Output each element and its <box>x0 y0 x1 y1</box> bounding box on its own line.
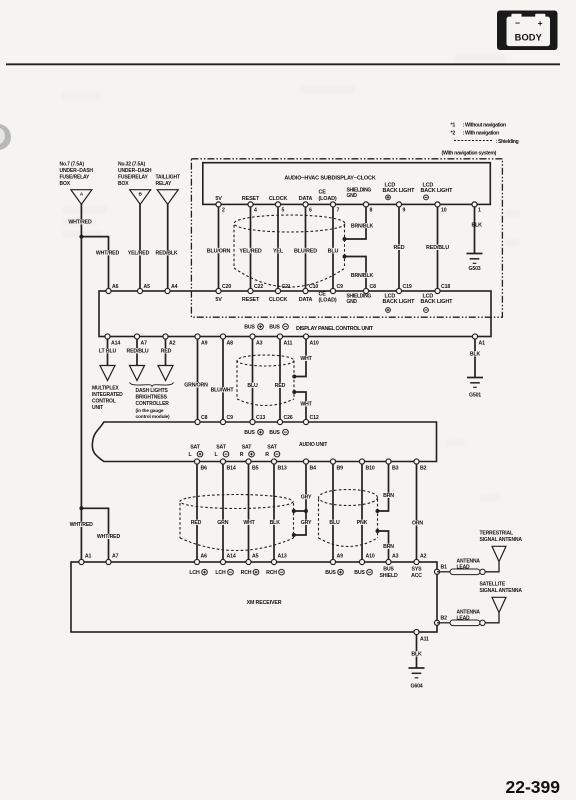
display panel control unit box <box>99 291 491 337</box>
ground G604 <box>409 667 425 669</box>
svg-text:(With navigation system): (With navigation system) <box>442 151 497 157</box>
svg-text:A14: A14 <box>111 341 120 347</box>
svg-text:CONTROLLER: CONTROLLER <box>136 401 170 407</box>
svg-text:LT BLU: LT BLU <box>99 349 117 355</box>
svg-text:BRN/BLK: BRN/BLK <box>351 273 374 279</box>
svg-text:B2: B2 <box>441 616 448 622</box>
svg-text:CONTROL: CONTROL <box>92 399 116 405</box>
svg-text:A9: A9 <box>337 554 344 560</box>
wire BLU/ORN pin 2 to display panel <box>218 207 220 288</box>
svg-text:▒▒▒▒▒▒▒▒: ▒▒▒▒▒▒▒▒ <box>62 92 102 100</box>
svg-text:▒▒▒: ▒▒▒ <box>505 209 520 217</box>
junction dot on shield S1 lower <box>343 255 347 259</box>
svg-text:LCH: LCH <box>189 570 200 576</box>
svg-text:A6: A6 <box>112 284 119 290</box>
svg-text:BLU/ORN: BLU/ORN <box>207 248 231 254</box>
svg-text:C26: C26 <box>284 415 293 421</box>
svg-text:TERRESTRIAL: TERRESTRIAL <box>480 531 513 537</box>
pin B2 of audio unit (bottom) <box>414 459 419 464</box>
junction dot BRN tap upper <box>376 509 380 513</box>
svg-text:A11: A11 <box>420 637 429 643</box>
svg-text:C9: C9 <box>337 284 344 290</box>
svg-text:BLU: BLU <box>329 520 340 526</box>
svg-text:CLOCK: CLOCK <box>269 196 288 202</box>
pin C9 of audio unit (top) <box>220 419 225 424</box>
svg-text:▒▒▒▒▒▒▒▒▒: ▒▒▒▒▒▒▒▒▒ <box>62 206 107 214</box>
ground G501 <box>467 377 483 379</box>
pin A3 of xm receiver (top) <box>386 559 391 564</box>
svg-text:AUDIO−HVAC SUBDISPLAY−CLOCK: AUDIO−HVAC SUBDISPLAY−CLOCK <box>284 176 375 182</box>
legend <box>451 123 519 146</box>
pin A11 of xm receiver (bottom) <box>414 629 419 634</box>
ground G503 <box>467 253 483 255</box>
audio unit box <box>92 422 436 462</box>
svg-text:BUS: BUS <box>244 430 255 436</box>
pin C21 of display panel (top) <box>275 288 280 293</box>
svg-text:UNIT: UNIT <box>92 405 103 411</box>
wire WHT B5 to A5 <box>248 464 250 559</box>
pin B4 of audio unit (bottom) <box>303 459 308 464</box>
svg-text:FUSE/RELAY: FUSE/RELAY <box>60 175 91 181</box>
connector arrow to multiplex integrated control unit <box>100 366 115 381</box>
svg-text:WHT: WHT <box>300 402 312 408</box>
svg-text:G604: G604 <box>410 684 422 690</box>
wire BRN/BLK shield drain upper segment <box>345 207 366 239</box>
pin A9 of xm receiver (top) <box>330 559 335 564</box>
svg-text:B10: B10 <box>366 466 375 472</box>
svg-text:C21: C21 <box>282 284 291 290</box>
wire RED B6 to A6 <box>196 464 198 559</box>
pin C13 of audio unit (top) <box>250 419 255 424</box>
svg-text:BLU/WHT: BLU/WHT <box>211 388 235 394</box>
wire PNK B10 to A10 <box>361 464 363 559</box>
svg-text:MULTIPLEX: MULTIPLEX <box>92 386 119 392</box>
svg-text:WHT: WHT <box>300 356 312 362</box>
connector arrow to dash lights brightness controller (A2) <box>158 366 173 381</box>
svg-text:B13: B13 <box>278 466 287 472</box>
svg-text:LEAD: LEAD <box>457 564 471 570</box>
svg-text:−: − <box>515 18 520 28</box>
junction dot shield S2 lower tap <box>292 390 296 394</box>
svg-text:C22: C22 <box>254 284 263 290</box>
svg-text:BUS: BUS <box>269 325 280 331</box>
svg-text:YEL/RED: YEL/RED <box>128 251 150 257</box>
fuse B symbol <box>130 190 151 205</box>
svg-text:+: + <box>538 18 543 28</box>
wire BLU pin 7 to display panel <box>332 207 334 288</box>
wire BRN/BLK shield drain lower segment <box>345 257 366 289</box>
wire WHT/RED branch to A7 <box>81 508 108 559</box>
svg-text:FUSE/RELAY: FUSE/RELAY <box>118 175 149 181</box>
pin A8 of display panel (bottom) <box>220 334 225 339</box>
svg-text:(LOAD): (LOAD) <box>319 196 337 202</box>
svg-text:22-399: 22-399 <box>506 777 561 797</box>
svg-text:R: R <box>265 452 269 458</box>
wire BLU A3 to C13 <box>252 339 254 419</box>
svg-text:SAT: SAT <box>242 445 253 451</box>
svg-text:DATA: DATA <box>299 297 313 303</box>
svg-text:TAILLIGHT: TAILLIGHT <box>156 175 180 181</box>
svg-text:▒▒▒: ▒▒▒ <box>505 239 520 247</box>
pin 9 of audio-hvac subdisplay <box>396 202 401 207</box>
svg-text:C19: C19 <box>403 284 412 290</box>
svg-text:YEL: YEL <box>273 248 284 254</box>
junction dot fuse A branch <box>79 235 83 239</box>
svg-text:▒▒▒▒▒▒▒▒▒▒: ▒▒▒▒▒▒▒▒▒▒ <box>455 54 505 62</box>
connector arrow to dash lights brightness controller (A7) <box>130 366 145 381</box>
svg-text:▒▒▒▒▒▒▒▒▒▒▒: ▒▒▒▒▒▒▒▒▒▒▒ <box>300 86 355 94</box>
svg-text:BLU: BLU <box>328 248 339 254</box>
antenna lead B1 <box>437 571 450 573</box>
svg-text:GRY: GRY <box>301 494 312 500</box>
svg-text:SYS: SYS <box>412 567 423 573</box>
pin 4 of audio-hvac subdisplay <box>248 202 253 207</box>
pin C20 of display panel (top) <box>216 288 221 293</box>
wire antenna lead B2 to satellite antenna <box>485 613 499 623</box>
junction dot shield S2 upper tap <box>292 375 296 379</box>
svg-text:A4: A4 <box>171 284 178 290</box>
shield S3 dashed cylinder (audio L/R wires) <box>180 495 294 551</box>
wire WHT/RED to A1 <box>80 508 82 559</box>
svg-text:WHT/RED: WHT/RED <box>70 522 94 528</box>
svg-text:R: R <box>240 452 244 458</box>
svg-text:5V: 5V <box>215 297 222 303</box>
wire RED/BLU A7 to dash lights controller <box>136 339 138 365</box>
svg-text:BUS: BUS <box>325 570 336 576</box>
junction dot GRY at wire <box>304 509 308 513</box>
wire BLK B13 to A13 <box>273 464 275 559</box>
wire BLU/RED pin 6 to display panel <box>305 207 307 288</box>
pin B13 of audio unit (bottom) <box>271 459 276 464</box>
svg-text:C8: C8 <box>201 415 208 421</box>
svg-text:SAT: SAT <box>216 445 227 451</box>
svg-text:BUS: BUS <box>383 567 394 573</box>
pin C9 of display panel (top) <box>330 288 335 293</box>
svg-text:A14: A14 <box>227 554 236 560</box>
pin A1 of xm receiver (top) <box>79 559 84 564</box>
svg-text:6: 6 <box>309 208 312 214</box>
svg-text:SATELLITE: SATELLITE <box>480 582 506 588</box>
pin A3 of display panel (bottom) <box>250 334 255 339</box>
svg-text:SAT: SAT <box>190 445 201 451</box>
pin 8 of audio-hvac subdisplay <box>363 202 368 207</box>
wire BRN B3 shield drain upper <box>378 464 389 511</box>
scan bleed-through ghosts <box>62 54 520 502</box>
svg-text:A3: A3 <box>392 554 399 560</box>
wire GRN B14 to A14 <box>222 464 224 559</box>
pin A14 of display panel (bottom) <box>105 334 110 339</box>
svg-text:CLOCK: CLOCK <box>269 297 288 303</box>
svg-text:DISPLAY PANEL CONTROL UNIT: DISPLAY PANEL CONTROL UNIT <box>296 326 374 332</box>
terrestrial signal antenna symbol <box>492 546 506 561</box>
wire antenna lead B1 to terrestrial antenna <box>485 562 499 572</box>
svg-text:BOX: BOX <box>60 181 71 187</box>
svg-text:C10: C10 <box>309 284 318 290</box>
svg-text:RED: RED <box>275 383 286 389</box>
svg-text:BLK: BLK <box>470 352 481 358</box>
svg-text:2: 2 <box>222 208 225 214</box>
pin B3 of audio unit (bottom) <box>386 459 391 464</box>
svg-text:A7: A7 <box>141 341 148 347</box>
svg-text:BLK: BLK <box>270 520 281 526</box>
svg-text:A3: A3 <box>256 341 263 347</box>
pin C22 of display panel (top) <box>248 288 253 293</box>
svg-text:GRY: GRY <box>301 520 312 526</box>
pin A5 of xm receiver (top) <box>246 559 251 564</box>
top horizontal rule <box>6 63 560 65</box>
svg-text:: With navigation: : With navigation <box>463 130 499 136</box>
svg-text:UNDER−DASH: UNDER−DASH <box>118 168 152 174</box>
pin C12 of audio unit (top) <box>303 419 308 424</box>
svg-text:B4: B4 <box>310 466 317 472</box>
pin 10 of audio-hvac subdisplay <box>435 202 440 207</box>
pin C26 of audio unit (top) <box>277 419 282 424</box>
svg-text:A13: A13 <box>278 554 287 560</box>
svg-text:RESET: RESET <box>242 297 260 303</box>
svg-text:No.7 (7.5A): No.7 (7.5A) <box>60 162 85 168</box>
svg-text:C12: C12 <box>310 415 319 421</box>
svg-text:7: 7 <box>337 208 340 214</box>
wire WHT/RED branch to A6 <box>81 237 108 289</box>
pin A9 of display panel (bottom) <box>195 334 200 339</box>
svg-text:RESET: RESET <box>242 196 260 202</box>
svg-text:A7: A7 <box>112 554 119 560</box>
taillight relay symbol <box>157 190 178 205</box>
svg-text:*2: *2 <box>451 130 456 136</box>
pin 1 of audio-hvac subdisplay <box>472 202 477 207</box>
pin A4 of display panel (top) <box>165 288 170 293</box>
svg-text:BUS: BUS <box>269 430 280 436</box>
wire GRY B4 shield drain <box>295 464 307 511</box>
pin A10 of display panel (bottom) <box>303 334 308 339</box>
svg-text:No.32 (7.5A): No.32 (7.5A) <box>118 162 146 168</box>
wire BLU/WHT A8 to C9 <box>222 339 224 419</box>
svg-text:BUS: BUS <box>244 325 255 331</box>
svg-text:RCH: RCH <box>241 570 252 576</box>
wire RED A2 to dash lights controller <box>165 339 167 365</box>
junction dot on shield S1 upper <box>343 237 347 241</box>
wire YEL/RED pin 4 to display panel <box>250 207 252 288</box>
pin 2 of audio-hvac subdisplay <box>216 202 221 207</box>
svg-text:5: 5 <box>282 208 285 214</box>
with-navigation-system dash-dot border <box>191 159 502 317</box>
svg-text:WHT/RED: WHT/RED <box>68 220 92 226</box>
wire RED A11 to C26 <box>279 339 281 419</box>
svg-text:ACC: ACC <box>411 573 422 579</box>
svg-text:*1: *1 <box>451 123 456 129</box>
wire YEL/RED fuse B to A5 <box>139 204 141 288</box>
svg-text:GND: GND <box>347 193 358 199</box>
svg-text:BLU: BLU <box>247 383 258 389</box>
svg-text:SIGNAL ANTENNA: SIGNAL ANTENNA <box>480 537 523 543</box>
satellite signal antenna symbol <box>492 597 506 612</box>
audio-hvac subdisplay-clock unit box <box>203 163 491 205</box>
svg-text:PNK: PNK <box>357 520 368 526</box>
pin A14 of xm receiver (top) <box>220 559 225 564</box>
svg-text:YEL/RED: YEL/RED <box>239 248 262 254</box>
svg-text:A1: A1 <box>479 341 486 347</box>
shield S4 dashed cylinder (BUS wires to XM) <box>319 490 378 547</box>
pin A7 of xm receiver (top) <box>106 559 111 564</box>
pin A6 of xm receiver (top) <box>194 559 199 564</box>
svg-text:10: 10 <box>441 208 447 214</box>
svg-text:▒▒▒▒: ▒▒▒▒ <box>445 439 465 447</box>
svg-text:C18: C18 <box>441 284 450 290</box>
wire BLU B9 to A9 <box>332 464 334 559</box>
svg-text:CE: CE <box>319 190 327 196</box>
pin A2 of display panel (bottom) <box>163 334 168 339</box>
svg-text:LEAD: LEAD <box>457 615 471 621</box>
pin 5 of audio-hvac subdisplay <box>275 202 280 207</box>
pin A5 of display panel (top) <box>137 288 142 293</box>
pin C10 of display panel (top) <box>303 288 308 293</box>
wire BLK pin 1 to G503 <box>474 207 476 253</box>
wire LT BLU A14 to multiplex unit <box>107 339 109 365</box>
pin B14 of audio unit (bottom) <box>220 459 225 464</box>
pin 7 of audio-hvac subdisplay <box>330 202 335 207</box>
svg-text:RED: RED <box>191 520 202 526</box>
svg-text:ORN: ORN <box>412 521 423 527</box>
svg-text:B5: B5 <box>252 466 259 472</box>
svg-text:B1: B1 <box>441 565 448 571</box>
svg-text:AUDIO UNIT: AUDIO UNIT <box>299 442 328 448</box>
pin B1 of xm receiver (right) <box>434 569 439 574</box>
pin B5 of audio unit (bottom) <box>246 459 251 464</box>
svg-text:A10: A10 <box>310 341 319 347</box>
svg-text:BACK LIGHT: BACK LIGHT <box>421 188 454 194</box>
svg-text:BLU/RED: BLU/RED <box>294 248 317 254</box>
wire BLK A11 to G604 <box>416 635 418 668</box>
svg-text:WHT: WHT <box>243 520 255 526</box>
svg-text:B14: B14 <box>227 466 236 472</box>
svg-text:INTEGRATED: INTEGRATED <box>92 392 123 398</box>
svg-text:G503: G503 <box>468 266 480 272</box>
svg-text:GRN: GRN <box>217 520 228 526</box>
svg-text:A11: A11 <box>284 341 293 347</box>
svg-text:BRN: BRN <box>383 544 394 550</box>
fuse A symbol <box>71 190 92 205</box>
svg-text:RED/BLK: RED/BLK <box>155 251 177 257</box>
wire YEL pin 5 to display panel <box>277 207 279 288</box>
svg-text:RCH: RCH <box>266 570 277 576</box>
svg-text:B2: B2 <box>420 466 427 472</box>
svg-text:UNDER−DASH: UNDER−DASH <box>60 168 94 174</box>
svg-text:A5: A5 <box>252 554 259 560</box>
pin A10 of xm receiver (top) <box>359 559 364 564</box>
svg-text:B9: B9 <box>337 466 344 472</box>
svg-text:BACK LIGHT: BACK LIGHT <box>421 299 454 305</box>
junction dot GRY tap lower <box>292 533 296 537</box>
svg-text:XM RECEIVER: XM RECEIVER <box>247 600 282 606</box>
pin A6 of display panel (top) <box>106 288 111 293</box>
svg-text:GND: GND <box>347 299 358 305</box>
pin C19 of display panel (top) <box>396 288 401 293</box>
battery BODY badge <box>497 11 558 51</box>
svg-text:SAT: SAT <box>267 445 278 451</box>
svg-text:A6: A6 <box>201 554 208 560</box>
svg-text:9: 9 <box>403 208 406 214</box>
brace under dash lights arrows <box>130 383 174 387</box>
junction dot BRN tap lower <box>376 529 380 533</box>
svg-text:▒▒▒▒: ▒▒▒▒ <box>480 494 500 502</box>
pin C18 of display panel (top) <box>435 288 440 293</box>
wire BRN shield to A3 <box>378 531 389 559</box>
pin B9 of audio unit (bottom) <box>330 459 335 464</box>
shield S2 dashed cylinder (BUS wires) <box>237 355 294 406</box>
svg-text:A9: A9 <box>201 341 208 347</box>
pin 6 of audio-hvac subdisplay <box>303 202 308 207</box>
svg-text:C20: C20 <box>222 284 231 290</box>
wire WHT A10 to C12 with shield taps <box>295 339 307 376</box>
binder hole (scan artifact) <box>0 124 11 150</box>
pin C8 of display panel (top) <box>363 288 368 293</box>
antenna lead B2 <box>437 622 450 624</box>
pin B10 of audio unit (bottom) <box>359 459 364 464</box>
svg-text:(LOAD): (LOAD) <box>319 297 337 303</box>
pin A11 of display panel (bottom) <box>277 334 282 339</box>
svg-text:WHT/RED: WHT/RED <box>96 251 120 257</box>
svg-text:1: 1 <box>478 208 481 214</box>
svg-text:BLK: BLK <box>411 652 422 658</box>
svg-text:BOX: BOX <box>118 181 129 187</box>
svg-text:BACK LIGHT: BACK LIGHT <box>383 188 416 194</box>
pin B2 of xm receiver (right) <box>434 620 439 625</box>
svg-text:LCH: LCH <box>215 570 226 576</box>
pin A7 of display panel (bottom) <box>134 334 139 339</box>
svg-text:RED/BLU: RED/BLU <box>426 245 449 251</box>
svg-text:SHIELD: SHIELD <box>379 573 398 579</box>
svg-text:GRN/ORN: GRN/ORN <box>184 383 208 389</box>
svg-text:8: 8 <box>370 208 373 214</box>
svg-text:B3: B3 <box>392 466 399 472</box>
svg-text:SIGNAL ANTENNA: SIGNAL ANTENNA <box>480 588 523 594</box>
junction dot GRY tap upper <box>292 509 296 513</box>
svg-text:RED/BLU: RED/BLU <box>126 349 148 355</box>
svg-text:A10: A10 <box>366 554 375 560</box>
svg-text:DASH LIGHTS: DASH LIGHTS <box>136 388 169 394</box>
svg-text:BRN: BRN <box>383 493 394 499</box>
svg-text:4: 4 <box>254 208 257 214</box>
svg-text:A2: A2 <box>169 341 176 347</box>
svg-text:: Shielding: : Shielding <box>496 139 519 145</box>
shield S1 dashed tube (5V..CE wires) <box>234 215 345 287</box>
svg-text:RED: RED <box>161 349 172 355</box>
svg-text:BODY: BODY <box>515 33 543 43</box>
pin C8 of audio unit (top) <box>195 419 200 424</box>
svg-text:C8: C8 <box>370 284 377 290</box>
svg-text:5V: 5V <box>215 196 222 202</box>
wire GRN/ORN A9 to C8 <box>197 339 199 419</box>
svg-text:(in the gauge: (in the gauge <box>136 408 164 414</box>
svg-text:BRIGHTNESS: BRIGHTNESS <box>136 395 168 401</box>
pin A13 of xm receiver (top) <box>271 559 276 564</box>
wire RED/BLK taillight relay to A4 <box>167 204 169 288</box>
svg-text:A2: A2 <box>420 554 427 560</box>
wire ORN B2 to A2 <box>416 464 418 559</box>
pin B6 of audio unit (bottom) <box>194 459 199 464</box>
svg-text:A5: A5 <box>144 284 151 290</box>
svg-text:A1: A1 <box>85 554 92 560</box>
xm receiver box <box>71 562 437 632</box>
svg-text:A8: A8 <box>227 341 234 347</box>
svg-text:C13: C13 <box>256 415 265 421</box>
pin A2 of xm receiver (top) <box>414 559 419 564</box>
svg-text:BLK: BLK <box>472 223 483 229</box>
svg-text:DATA: DATA <box>299 196 313 202</box>
svg-text:B6: B6 <box>201 466 208 472</box>
wire BLK A1 to G501 <box>474 339 476 377</box>
junction dot WHT/RED branch to A7 <box>79 506 83 510</box>
